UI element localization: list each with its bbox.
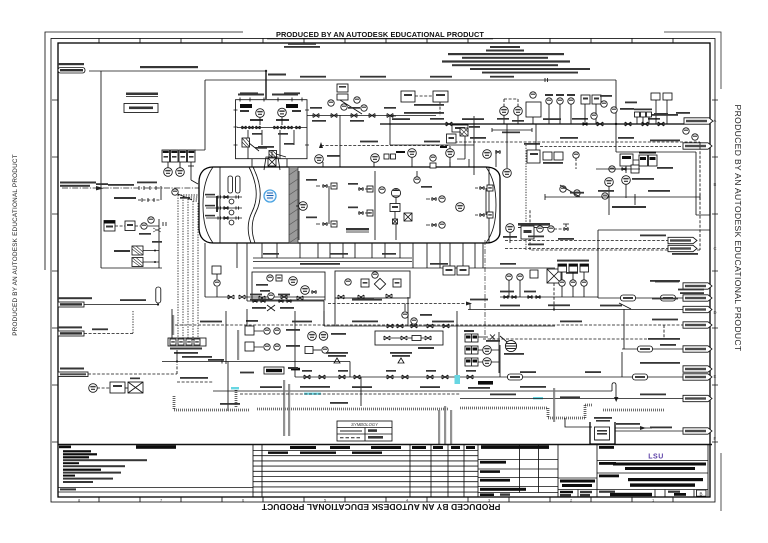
vessel demister hatched band [289, 167, 298, 243]
risers PSV box to vessel [252, 159, 287, 167]
revision table [253, 445, 478, 498]
wire: y=361.5 line [162, 350, 350, 411]
manway funnel on vessel top [258, 146, 280, 170]
vessel interior: Y circle [414, 171, 432, 188]
T circle under gas line [503, 124, 512, 177]
frame tick marks bottom [99, 497, 673, 502]
LV valve box [375, 331, 443, 349]
F14 label + cyan [231, 367, 543, 399]
approval block [478, 445, 558, 498]
wire: inlet header y=71 [89, 71, 266, 99]
note 7a circles mid [305, 332, 346, 354]
speckled drain channels [174, 396, 664, 418]
feed row ticks y=188 [137, 182, 161, 201]
corrosion inhibitor dashed to tag y=146.5 [540, 140, 712, 150]
tag: right y=369 [640, 362, 712, 372]
speckled drop x=236 [236, 388, 321, 408]
wire: to open ditch arrow [615, 423, 652, 430]
vertical speckled label columns [172, 315, 555, 444]
scattered line labels [96, 76, 679, 405]
left tag closed drain [58, 364, 177, 377]
wire: y=382 dashes [177, 377, 213, 382]
tag: right y=377 [683, 374, 712, 380]
frame tick marks left/right [52, 100, 718, 442]
small label under banner left [284, 43, 320, 48]
left tag future line [58, 311, 133, 336]
title block [597, 445, 708, 498]
mid-right boxes under gas line [527, 124, 563, 164]
note 7A circle cluster lower-left-center [245, 320, 300, 351]
X-box with dashed drop [547, 269, 578, 309]
wire: manifold y=377 [295, 311, 683, 406]
wire: riser right side x=616 + boundary [598, 80, 710, 349]
sample bundle dashed verticals [178, 195, 199, 340]
svg-text:PRODUCED BY AN AUTODESK EDUCAT: PRODUCED BY AN AUTODESK EDUCATIONAL PROD… [733, 105, 743, 352]
wire: condenser line y=298 [598, 289, 712, 309]
svg-text:B: B [714, 182, 717, 187]
wire: y=391 with hook [213, 383, 618, 402]
vessel interior: bridle 3 [426, 196, 445, 228]
vessel interior: F circle [296, 202, 307, 211]
tag: right y=398.5 [683, 395, 712, 401]
above-vessel instrument row [315, 126, 500, 168]
wire: dashed y=339 [483, 338, 664, 340]
vessel top nozzle stems [323, 150, 496, 167]
wire: double header under vessel [253, 258, 555, 268]
UV box cluster below boundary [602, 152, 673, 216]
svg-text:C: C [714, 246, 717, 251]
V-55630 equipment label [518, 223, 550, 228]
svg-text:A: A [714, 118, 717, 123]
tag: right edge y=286 [650, 280, 712, 289]
dash-dot vertical x=485 [484, 240, 486, 339]
banner bottom (rotated 180) [261, 502, 500, 512]
future instruments + dimension line [545, 185, 700, 208]
tag: to gas outlet right [648, 114, 713, 124]
boxes pair above with dashed links [401, 91, 448, 116]
dashed vertical x=526 [525, 145, 527, 250]
JB-55630 boxed label [124, 104, 158, 113]
feed row 2 y=200 [114, 197, 161, 202]
valve row instruments left of it [500, 270, 598, 299]
top-mid instrument cluster [328, 84, 367, 167]
left tag vent header [58, 287, 161, 307]
zone letters right edge [714, 118, 717, 441]
svg-text:E: E [714, 374, 717, 379]
AE circle on dome [172, 189, 192, 200]
vessel interior: B circle [456, 203, 465, 212]
frame tick marks top [99, 38, 673, 43]
top center spec text block V-55630 [442, 46, 590, 74]
svg-text:B: B [699, 491, 702, 496]
dashed pair to corrosion tags y=241/249 [505, 235, 698, 255]
outer border partial lines [45, 32, 721, 511]
lower instrument box B [335, 271, 410, 299]
vessel interior: bridle 2 [348, 171, 375, 240]
vessel interior: E/P instruments [379, 187, 412, 240]
wire: right header y=309.5 [468, 304, 683, 311]
wire: dashed corrosion inhibitor y=325 [175, 319, 712, 339]
SYMBOLOGY box [337, 421, 392, 441]
main drawing frame [58, 43, 710, 497]
blue instrument bubble on vessel [264, 190, 276, 202]
PSH boxes row above vessel-left [162, 150, 198, 184]
wire: drop to unit box left [101, 71, 162, 268]
wire: y=398.5 [460, 394, 683, 399]
svg-text:D: D [714, 310, 717, 315]
left dome nozzle rows [205, 194, 242, 225]
right-of-vessel cluster [503, 152, 640, 243]
banner left (rotated -90) [12, 154, 19, 336]
triple box instrument bank [464, 330, 524, 389]
small box + circle left of box A [205, 243, 252, 299]
vessel interior: bridle 4 [475, 185, 493, 218]
sump pit [590, 417, 615, 444]
vessel inlet device bars [228, 176, 240, 193]
left feed line dash-dot [60, 182, 199, 191]
tag: right edge y=309.5 [683, 306, 712, 312]
unit boundary box with NOTE [390, 116, 474, 175]
logo/scale mini block [558, 478, 597, 497]
wire: main gas line y=124 [380, 118, 684, 126]
svg-text:SYMBOLOGY: SYMBOLOGY [351, 422, 379, 427]
node: junction dots on header [265, 70, 617, 125]
vessel bottom nozzle drops [237, 243, 483, 268]
bottom mid dashed rows under manifold [240, 393, 460, 395]
wire: y=349 to flare tag [622, 344, 683, 352]
lower instrument box A [252, 272, 325, 300]
banner right (rotated 90) [733, 105, 743, 352]
dashed note line above vessel [319, 142, 450, 148]
stacked box columns cluster [557, 260, 589, 297]
extra top right circles [583, 95, 634, 126]
svg-text:LSU: LSU [648, 453, 664, 460]
tables top line [58, 444, 712, 446]
inlet header tag left [58, 63, 286, 76]
svg-text:PRODUCED BY AN AUTODESK EDUCAT: PRODUCED BY AN AUTODESK EDUCATIONAL PROD… [12, 154, 19, 336]
tag: right y=431 [683, 428, 712, 434]
hatched drain boxes lower left [114, 241, 162, 267]
tag: right y=349 [648, 338, 712, 352]
notes block [58, 445, 253, 498]
wire: level bridge line y=326 [324, 297, 555, 328]
right boxes F/B row [443, 266, 469, 275]
bypass valve cluster y=301 [247, 243, 324, 326]
gas line riser stubs with mini boxes [625, 102, 668, 125]
vessel internal curved plate [248, 167, 260, 243]
cotter vent labels [326, 352, 412, 363]
PV cluster top center-right [492, 92, 541, 133]
PSV trio on gas line [545, 94, 601, 124]
zone digits bottom edge [78, 498, 655, 503]
extra verticals center bottom [172, 309, 247, 364]
svg-text:PRODUCED BY AN AUTODESK EDUCAT: PRODUCED BY AN AUTODESK EDUCATIONAL PROD… [276, 30, 484, 39]
valve row right of PSV box y=115.5 [307, 107, 436, 122]
svg-text:F: F [714, 436, 717, 441]
vessel label 7 HD vertical [216, 196, 218, 212]
dashed LC line [328, 299, 472, 324]
SK-55630 label [126, 93, 158, 97]
motor legend row bottom-left [89, 378, 143, 394]
wire: SK boundary line y=80 [195, 76, 616, 150]
wire: y=431 to tag [615, 427, 683, 432]
drain connector into sump [565, 418, 592, 427]
FY box row mid-left [104, 217, 166, 268]
dashed future boundary [450, 142, 700, 250]
V-55630 label inside vessel [346, 228, 369, 232]
svg-text:PRODUCED BY AN AUTODESK EDUCAT: PRODUCED BY AN AUTODESK EDUCATIONAL PROD… [261, 502, 500, 512]
vessel shell tangent lines [220, 167, 489, 243]
vessel V-55630 [199, 167, 500, 243]
sample station row [168, 338, 206, 354]
banner top: PRODUCED BY AN AUTODESK EDUCATIONAL PRODUCT [267, 30, 493, 39]
PSV manifold box [234, 94, 310, 159]
vessel interior: bridle 1 [306, 179, 337, 227]
right-top small instruments [601, 93, 698, 140]
